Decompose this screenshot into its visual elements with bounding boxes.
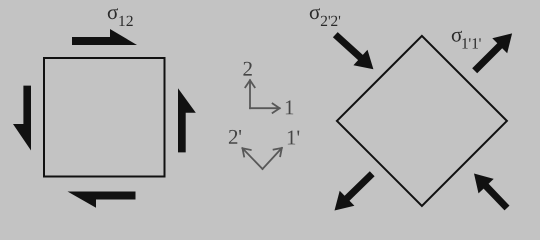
rotated stress element (diamond, right) [337, 36, 507, 206]
label 2' [229, 130, 241, 144]
axes 1'-2' (rotated frame, V shape) [243, 148, 282, 169]
axis 1' (up-right) [263, 148, 282, 169]
axis 2 (vertical) [249, 80, 251, 108]
axis 1 (horizontal) [250, 107, 280, 109]
shear half-arrow top (points right) [72, 29, 137, 45]
principal stress arrow (bottom-left, away) [335, 171, 375, 210]
label sigma_12 [108, 8, 133, 26]
axis 2' (up-left) [243, 148, 263, 169]
principal stress arrow sigma_2'2' (top-left, toward element) [333, 32, 374, 69]
principal stress arrow sigma_1'1' (top-right, away) [472, 33, 512, 73]
label sigma_2'2' [310, 8, 340, 26]
shear half-arrow right (points up) [178, 88, 196, 152]
principal stress arrow (bottom-right, toward element) [474, 174, 510, 211]
label sigma_1'1' [452, 31, 481, 49]
label 2 [243, 62, 251, 76]
label 1 [286, 100, 293, 114]
shear half-arrow bottom (points left) [68, 192, 136, 208]
axes 1-2 (unrotated frame) [245, 80, 279, 113]
stress element square (left) [44, 58, 165, 177]
label 1' [288, 131, 300, 145]
shear half-arrow left (points down) [13, 86, 31, 151]
